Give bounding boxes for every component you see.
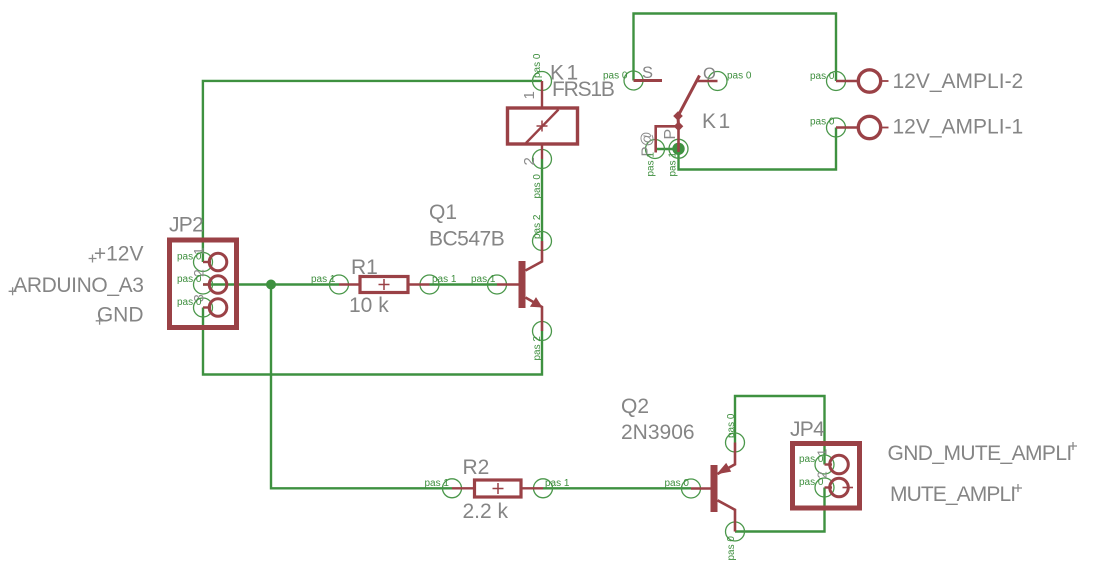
svg-text:1: 1 (521, 91, 538, 99)
pad JP4 pin 1 (815, 455, 834, 474)
relay contact K1: lever arm (678, 76, 700, 127)
svg-text:JP2: JP2 (169, 214, 203, 237)
pad relay contact O (708, 72, 727, 91)
svg-text:pas 0: pas 0 (532, 174, 543, 199)
pad R1 left (330, 275, 349, 294)
svg-text:2: 2 (521, 157, 538, 165)
terminal 12V_AMPLI-1 (858, 116, 880, 138)
junction node on ARDUINO_A3 net (266, 280, 276, 290)
wire: R2 right pad to Q2 base pad (543, 487, 691, 489)
svg-text:pas 0: pas 0 (177, 252, 202, 263)
pad relay contact P pivot (669, 139, 688, 158)
JP4 pin 2 circle (830, 478, 849, 497)
connector JP2 body (170, 240, 237, 328)
svg-text:R1: R1 (351, 256, 378, 279)
svg-text:pas 0: pas 0 (665, 478, 690, 489)
pad relay contact P@ (646, 140, 665, 159)
svg-text:pas 0: pas 0 (726, 536, 737, 561)
label origin cross for MUTE_AMPLI (1014, 484, 1022, 492)
transistor Q1 BC547B (497, 241, 543, 331)
svg-text:O: O (703, 65, 716, 83)
svg-text:pas 1: pas 1 (471, 274, 496, 285)
pad JP4 pin 2 (815, 478, 834, 497)
wire: R1 right pad to Q1 base pad (430, 283, 498, 285)
wire: relay coil pin 2 down to Q1 collector pad (541, 159, 543, 241)
svg-text:pas 0: pas 0 (603, 71, 628, 82)
pad Q2 collector (726, 522, 745, 541)
resistor R1 (339, 277, 430, 293)
JP2 pin 2 circle (209, 276, 227, 294)
svg-text:pas 1: pas 1 (646, 152, 657, 177)
svg-text:pas 0: pas 0 (799, 477, 824, 488)
connector JP4 body (793, 444, 860, 509)
relay contact pole bracket (656, 126, 679, 152)
JP4 pin 2 origin dash (843, 487, 854, 489)
svg-text:pas 2: pas 2 (532, 336, 543, 361)
resistor R2 (452, 480, 543, 497)
pad JP2 pin 2 (194, 275, 213, 294)
pad name labels (pas) (177, 53, 835, 560)
svg-text:2N3906: 2N3906 (621, 421, 695, 444)
svg-text:Q2: Q2 (621, 395, 649, 418)
relay contact K1: S terminal bar (634, 79, 663, 82)
svg-text:K1: K1 (702, 110, 733, 133)
lever joint diamond upper (673, 111, 683, 121)
svg-text:P: P (662, 129, 679, 140)
JP4 pin 1 circle (830, 455, 849, 474)
wire net: relay pivot P to 12V_AMPLI-1 pad (655, 128, 836, 170)
label origin cross for +12V (89, 255, 97, 263)
label origin cross for GND (96, 317, 104, 325)
pad relay coil pin 1 (533, 72, 552, 91)
wire GND net: JP2 pin3 down, right, up to Q1 emitter (203, 308, 542, 375)
wire: JP4 pin 2 down, left to Q2 collector (735, 488, 825, 532)
wire net +12V: JP2 pin1 up and right to relay coil pin 1 (203, 81, 542, 262)
svg-text:R2: R2 (463, 456, 490, 479)
svg-text:MUTE_AMPLI: MUTE_AMPLI (890, 483, 1015, 506)
wire: Q2 emitter up, right, down to JP4 pin 1 (735, 396, 825, 465)
JP2 pin 3 circle (209, 299, 227, 317)
svg-text:pas 0: pas 0 (532, 53, 543, 78)
svg-text:+12V: +12V (94, 243, 144, 266)
JP2 pin 1 circle (203, 253, 227, 316)
transistor Q2 2N3906 (691, 443, 735, 532)
svg-text:pas 0: pas 0 (727, 71, 752, 82)
svg-text:pas 0: pas 0 (726, 413, 737, 438)
label origin cross for GND_MUTE_AMPLI (1069, 442, 1077, 450)
svg-text:pas 1: pas 1 (545, 478, 570, 489)
pad R1 right (420, 275, 439, 294)
label origin cross for ARDUINO_A3 (9, 287, 17, 295)
svg-text:pas 1: pas 1 (668, 152, 679, 177)
svg-text:GND_MUTE_AMPLI: GND_MUTE_AMPLI (888, 442, 1072, 465)
wire net ARDUINO_A3: JP2 pin2 to R1 left pad (203, 283, 339, 285)
svg-text:Q1: Q1 (429, 201, 457, 224)
pad JP2 pin 1 (194, 253, 213, 272)
svg-text:JP4: JP4 (790, 418, 825, 441)
pad Q1 base (488, 275, 507, 294)
svg-text:GND: GND (97, 304, 144, 327)
lever joint diamond lower (674, 121, 684, 131)
pad Q1 collector (533, 232, 552, 251)
pad JP2 pin 3 (194, 298, 213, 317)
svg-text:10 k: 10 k (349, 294, 389, 317)
pad 12V_AMPLI-1 (827, 118, 846, 137)
svg-text:ARDUINO_A3: ARDUINO_A3 (13, 274, 143, 297)
svg-text:pas 0: pas 0 (810, 71, 835, 82)
svg-text:12V_AMPLI-1: 12V_AMPLI-1 (893, 116, 1024, 139)
pad 12V_AMPLI-2 (827, 72, 846, 91)
svg-text:pas 0: pas 0 (177, 274, 202, 285)
wire net: relay contact S up, across top, down to 12V_AMPLI-2 pad (634, 14, 837, 82)
pad R2 right (534, 479, 553, 498)
svg-text:BC547B: BC547B (429, 228, 504, 251)
svg-text:pas 0: pas 0 (177, 297, 202, 308)
junction node at relay pivot P (672, 143, 684, 155)
svg-text:pas 0: pas 0 (799, 454, 824, 465)
relay coil K1 body (508, 81, 578, 159)
relay contact K1: O terminal stub (698, 80, 718, 82)
svg-text:12V_AMPLI-2: 12V_AMPLI-2 (893, 70, 1024, 93)
svg-text:pas 1: pas 1 (311, 274, 336, 285)
terminal 12V_AMPLI-2 (836, 70, 889, 139)
pad Q2 emitter (726, 433, 745, 452)
svg-text:pas 0: pas 0 (810, 117, 835, 128)
pad Q2 base (682, 479, 701, 498)
pad R2 left (443, 479, 462, 498)
svg-text:2.2 k: 2.2 k (463, 500, 509, 523)
pad relay coil pin 2 (533, 150, 552, 169)
wire branch from junction down and right to R2 left pad (271, 285, 452, 489)
pad relay contact S (624, 71, 643, 90)
svg-text:pas 1: pas 1 (425, 478, 450, 489)
svg-text:S: S (642, 64, 653, 82)
svg-text:pas 1: pas 1 (432, 274, 457, 285)
svg-text:pas 2: pas 2 (532, 214, 543, 239)
pad Q1 emitter (533, 322, 552, 341)
